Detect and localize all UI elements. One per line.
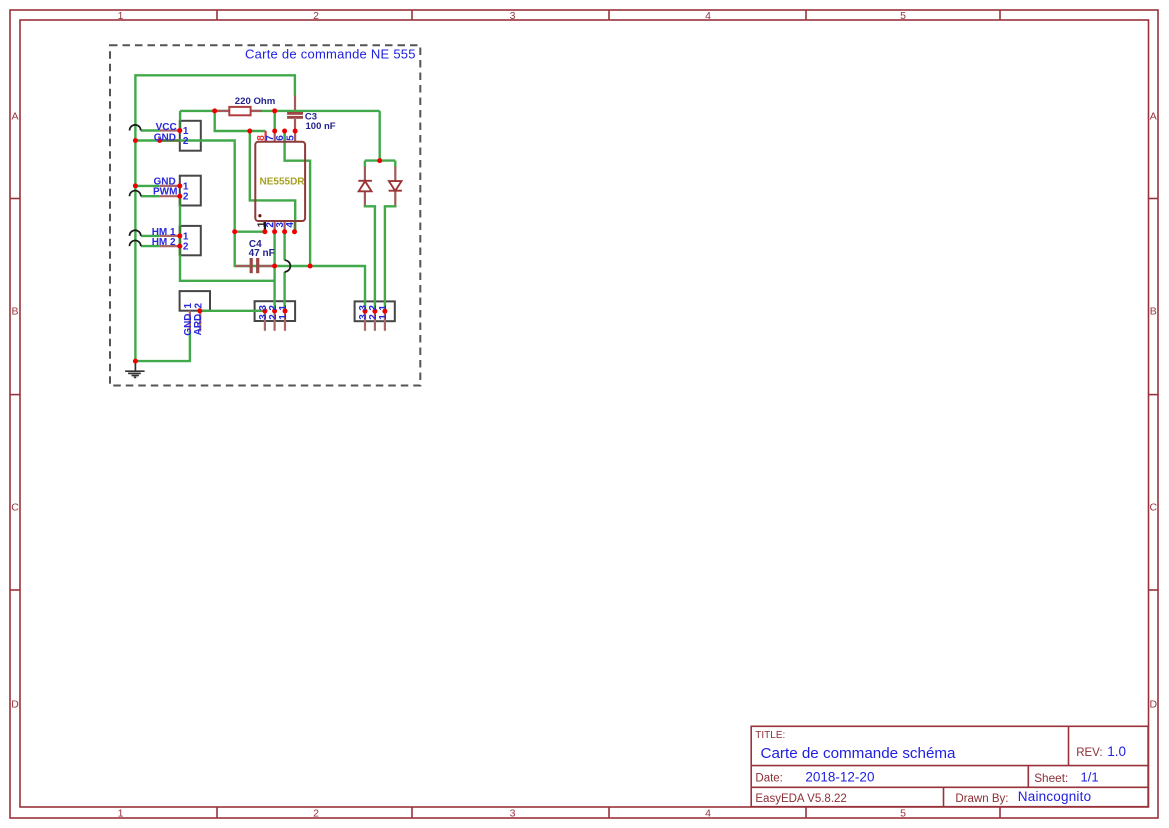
svg-text:2: 2 bbox=[183, 136, 189, 147]
svg-text:C: C bbox=[11, 502, 19, 514]
svg-text:3: 3 bbox=[510, 10, 516, 22]
svg-text:100 nF: 100 nF bbox=[306, 121, 336, 132]
svg-text:1: 1 bbox=[118, 808, 124, 820]
svg-text:47 nF: 47 nF bbox=[249, 248, 275, 259]
svg-text:5: 5 bbox=[900, 10, 906, 22]
svg-text:2: 2 bbox=[183, 242, 189, 253]
svg-text:C: C bbox=[1150, 502, 1158, 514]
svg-text:1: 1 bbox=[378, 305, 389, 311]
svg-text:2: 2 bbox=[268, 314, 279, 320]
svg-text:5: 5 bbox=[286, 135, 297, 141]
svg-text:VCC: VCC bbox=[156, 122, 177, 133]
svg-text:1.0: 1.0 bbox=[1107, 744, 1126, 759]
svg-text:4: 4 bbox=[705, 10, 711, 22]
svg-text:TITLE:: TITLE: bbox=[755, 730, 785, 741]
svg-text:A: A bbox=[1150, 111, 1157, 123]
svg-text:3: 3 bbox=[510, 808, 516, 820]
svg-text:HM 2: HM 2 bbox=[152, 237, 176, 248]
svg-text:A: A bbox=[11, 111, 18, 123]
svg-text:2: 2 bbox=[268, 305, 279, 311]
svg-text:1: 1 bbox=[378, 314, 389, 320]
svg-text:GND: GND bbox=[154, 132, 176, 143]
svg-text:Naincognito: Naincognito bbox=[1018, 789, 1092, 804]
svg-text:4: 4 bbox=[285, 222, 296, 228]
svg-text:2: 2 bbox=[313, 10, 319, 22]
svg-text:B: B bbox=[11, 306, 18, 318]
svg-text:1: 1 bbox=[278, 314, 289, 320]
svg-text:PWM: PWM bbox=[153, 187, 177, 198]
svg-text:2: 2 bbox=[313, 808, 319, 820]
svg-text:NE555DR: NE555DR bbox=[260, 177, 306, 188]
svg-text:D: D bbox=[1150, 699, 1158, 711]
svg-text:1: 1 bbox=[278, 305, 289, 311]
svg-text:220 Ohm: 220 Ohm bbox=[235, 96, 276, 107]
svg-text:Date:: Date: bbox=[755, 773, 783, 785]
svg-text:1: 1 bbox=[183, 303, 194, 309]
svg-text:Carte de commande schéma: Carte de commande schéma bbox=[761, 745, 957, 762]
svg-text:1: 1 bbox=[118, 10, 124, 22]
svg-text:REV:: REV: bbox=[1076, 747, 1102, 759]
svg-text:GND: GND bbox=[183, 313, 194, 335]
svg-text:2018-12-20: 2018-12-20 bbox=[805, 769, 874, 784]
svg-text:Drawn By:: Drawn By: bbox=[955, 793, 1008, 805]
svg-text:ARD: ARD bbox=[193, 314, 204, 336]
svg-text:6: 6 bbox=[275, 135, 286, 141]
svg-text:5: 5 bbox=[900, 808, 906, 820]
svg-text:2: 2 bbox=[194, 303, 205, 309]
svg-text:2: 2 bbox=[183, 192, 189, 203]
svg-text:1/1: 1/1 bbox=[1081, 769, 1099, 784]
svg-text:D: D bbox=[11, 699, 19, 711]
svg-text:Sheet:: Sheet: bbox=[1034, 771, 1068, 785]
svg-text:EasyEDA V5.8.22: EasyEDA V5.8.22 bbox=[755, 793, 846, 805]
svg-text:4: 4 bbox=[705, 808, 711, 820]
svg-text:Carte de commande NE 555: Carte de commande NE 555 bbox=[245, 47, 416, 62]
svg-text:B: B bbox=[1150, 306, 1157, 318]
